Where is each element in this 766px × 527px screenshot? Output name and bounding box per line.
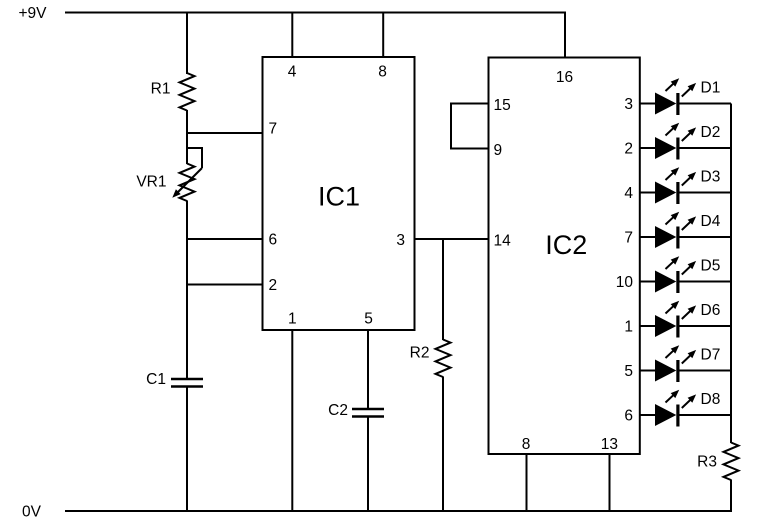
- svg-text:4: 4: [624, 185, 633, 202]
- resistor R2: [436, 340, 451, 378]
- pin 16 label: [556, 69, 573, 86]
- capacitor C1: [171, 379, 203, 387]
- svg-text:7: 7: [624, 230, 633, 247]
- svg-text:IC1: IC1: [318, 182, 360, 212]
- label D2: [701, 124, 721, 141]
- svg-text:0V: 0V: [22, 504, 42, 521]
- wire 0V rail: [65, 510, 731, 512]
- svg-text:D8: D8: [701, 391, 721, 408]
- label D5: [701, 258, 721, 275]
- label VR1: [136, 174, 166, 191]
- svg-text:1: 1: [288, 311, 297, 328]
- variable resistor VR1: [172, 148, 202, 201]
- pin 3 label (IC2 right, row 1): [624, 96, 633, 113]
- label R3: [697, 454, 717, 471]
- svg-text:R3: R3: [697, 454, 717, 471]
- svg-text:R2: R2: [410, 345, 430, 362]
- counter IC2 box: [489, 58, 640, 455]
- LED D2: [640, 123, 731, 160]
- pin 9 label: [494, 142, 503, 159]
- label IC2: [545, 230, 587, 260]
- label D3: [701, 169, 721, 186]
- pin 2 label: [269, 277, 278, 294]
- svg-text:7: 7: [269, 121, 278, 138]
- svg-text:8: 8: [378, 64, 387, 81]
- svg-text:13: 13: [601, 436, 618, 453]
- wire IC1 pin 5 to C2: [367, 330, 369, 409]
- LED D8: [640, 390, 731, 427]
- pin 3 label: [396, 232, 405, 249]
- wire +9V to R1 top: [186, 13, 188, 75]
- svg-text:+9V: +9V: [18, 5, 47, 22]
- svg-text:VR1: VR1: [136, 174, 166, 191]
- resistor R1: [180, 73, 195, 111]
- LED D4: [640, 212, 731, 249]
- LED D1: [640, 78, 731, 115]
- svg-text:5: 5: [624, 363, 633, 380]
- pin 4 label (IC2 right, row 3): [624, 185, 633, 202]
- wire pin6 branch to IC1: [187, 238, 263, 240]
- svg-text:6: 6: [624, 408, 633, 425]
- wire +9V to IC2 pin 16: [564, 12, 566, 58]
- pin 5 label (IC2 right, row 7): [624, 363, 633, 380]
- resistor R3: [724, 443, 739, 481]
- pin 1 label (IC2 right, row 6): [624, 319, 633, 336]
- svg-text:D5: D5: [701, 258, 721, 275]
- wire R2 to 0V: [442, 377, 444, 512]
- label IC1: [318, 182, 360, 212]
- pin 15 label: [494, 97, 511, 114]
- LED D3: [640, 167, 731, 204]
- wire +9V rail: [65, 12, 565, 14]
- wire IC2 pin 13 to 0V: [609, 454, 611, 511]
- wire node to R2: [442, 239, 444, 340]
- wire LED cathode bus: [730, 104, 732, 444]
- svg-text:2: 2: [269, 277, 278, 294]
- node 0V label: [22, 504, 42, 521]
- svg-text:3: 3: [396, 232, 405, 249]
- svg-text:8: 8: [522, 436, 531, 453]
- wire IC1 pin 1 to 0V: [291, 330, 293, 511]
- wire C2 to 0V: [367, 417, 369, 512]
- wire IC2 pin 8 to 0V: [526, 454, 528, 511]
- LED D6: [640, 301, 731, 338]
- label D6: [701, 302, 721, 319]
- capacitor C2: [352, 409, 384, 417]
- svg-text:D3: D3: [701, 169, 721, 186]
- svg-text:16: 16: [556, 69, 573, 86]
- wire pin 15 to pin 9 loop: [451, 104, 489, 149]
- wire VR1 bottom to C1: [186, 201, 188, 380]
- label D4: [701, 213, 721, 230]
- pin 8 label (IC2): [522, 436, 531, 453]
- node +9V label: [18, 5, 47, 22]
- LED D5: [640, 256, 731, 293]
- svg-text:1: 1: [624, 319, 633, 336]
- svg-text:3: 3: [624, 96, 633, 113]
- svg-text:D4: D4: [701, 213, 721, 230]
- pin 7 label: [269, 121, 278, 138]
- svg-text:15: 15: [494, 97, 511, 114]
- label D7: [701, 347, 721, 364]
- svg-text:C2: C2: [328, 402, 348, 419]
- wire pin7 branch to IC1: [187, 132, 263, 134]
- pin 10 label (IC2 right, row 5): [616, 274, 634, 291]
- label C2: [328, 402, 348, 419]
- wire IC1 pin 3 to IC2 pin 14: [415, 238, 489, 240]
- svg-text:9: 9: [494, 142, 503, 159]
- svg-text:D6: D6: [701, 302, 721, 319]
- wire pin2 branch to IC1: [187, 284, 263, 286]
- label R1: [151, 81, 171, 98]
- svg-text:C1: C1: [146, 371, 166, 388]
- svg-text:2: 2: [624, 141, 633, 158]
- pin 14 label: [494, 233, 512, 250]
- wire R3 to 0V: [730, 480, 732, 513]
- label D8: [701, 391, 721, 408]
- svg-text:IC2: IC2: [545, 230, 587, 260]
- label D1: [701, 80, 721, 97]
- pin 1 label: [288, 311, 297, 328]
- pin 8 label: [378, 64, 387, 81]
- svg-text:6: 6: [269, 232, 278, 249]
- wire +9V to IC1 pin 4: [291, 13, 293, 58]
- wire +9V to IC1 pin 8: [382, 13, 384, 58]
- pin 6 label: [269, 232, 278, 249]
- pin 4 label: [288, 64, 297, 81]
- label R2: [410, 345, 430, 362]
- pin 7 label (IC2 right, row 4): [624, 230, 633, 247]
- svg-text:4: 4: [288, 64, 297, 81]
- pin 6 label (IC2 right, row 8): [624, 408, 633, 425]
- svg-text:R1: R1: [151, 81, 171, 98]
- pin 13 label: [601, 436, 618, 453]
- svg-text:D2: D2: [701, 124, 721, 141]
- wire C1 to 0V: [186, 387, 188, 512]
- svg-text:5: 5: [364, 311, 373, 328]
- op-amp/timer IC1 box: [263, 57, 415, 330]
- pin 5 label: [364, 311, 373, 328]
- pin 2 label (IC2 right, row 2): [624, 141, 633, 158]
- svg-text:14: 14: [494, 233, 512, 250]
- LED D7: [640, 345, 731, 382]
- svg-text:D7: D7: [701, 347, 721, 364]
- label C1: [146, 371, 166, 388]
- wire R1 bottom to VR1: [186, 110, 188, 164]
- svg-text:10: 10: [616, 274, 634, 291]
- svg-text:D1: D1: [701, 80, 721, 97]
